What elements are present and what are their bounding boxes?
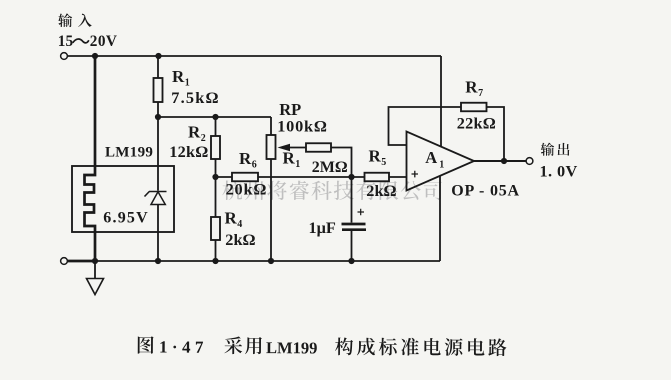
watermark 杭州将睿科技有限公司	[222, 181, 441, 201]
junction: ground zener	[155, 258, 161, 264]
svg-text:R: R	[369, 147, 382, 166]
label LM199	[105, 144, 153, 160]
svg-text:R: R	[188, 123, 201, 142]
svg-text:2MΩ: 2MΩ	[312, 159, 348, 176]
svg-text:LM199: LM199	[266, 338, 317, 357]
label A1 op-amp	[425, 148, 444, 171]
svg-text:4: 4	[237, 219, 242, 230]
svg-text:22kΩ: 22kΩ	[457, 113, 496, 132]
svg-text:100kΩ: 100kΩ	[277, 116, 328, 135]
wire: capacitor leads	[351, 177, 353, 261]
capacitor C1 1uF plates	[342, 209, 367, 230]
label 输出 (output)	[541, 143, 570, 156]
resistor R6 body	[232, 173, 258, 182]
svg-text:1: 1	[295, 159, 300, 170]
value 20kΩ	[226, 180, 268, 199]
junction: R2 bottom node	[212, 174, 218, 180]
label R7	[465, 78, 483, 100]
wire: bottom ground rail	[68, 260, 441, 262]
op-amp + input mark	[412, 171, 419, 178]
input terminal (+)	[61, 53, 68, 60]
wire: RP bottom lead to ground rail	[270, 117, 272, 261]
svg-text:1·47: 1·47	[159, 338, 208, 357]
wire: thick heater branch with LM199 heater meander	[85, 56, 96, 261]
value 2kΩ (R5)	[366, 181, 396, 200]
junction: ground R4	[212, 258, 218, 264]
value 100kΩ	[277, 116, 328, 135]
value 1uF	[309, 218, 336, 237]
value 12kΩ	[169, 142, 208, 161]
value 15~20V	[58, 33, 118, 50]
svg-text:12kΩ: 12kΩ	[169, 142, 208, 161]
svg-text:6: 6	[252, 160, 257, 171]
label R3	[225, 209, 243, 231]
output terminal	[526, 158, 533, 165]
resistor R5 body	[365, 173, 390, 182]
wire: op-amp V+ vertical drop	[440, 56, 442, 147]
value 2kΩ (R3)	[225, 230, 255, 249]
value 22kΩ	[457, 113, 496, 132]
svg-text:2kΩ: 2kΩ	[225, 230, 255, 249]
zener diode 6.95V	[145, 192, 167, 205]
wire: op-amp V- riser from ground rail	[439, 177, 441, 262]
svg-text:R: R	[283, 149, 296, 168]
resistor R7 body	[461, 103, 487, 112]
svg-text:OP - 05A: OP - 05A	[451, 182, 520, 199]
resistor R2 body	[211, 136, 220, 159]
potentiometer RP body	[267, 135, 276, 159]
value 6.95V	[103, 210, 149, 227]
svg-text:A: A	[425, 148, 437, 167]
svg-text:1: 1	[439, 160, 444, 171]
label OP-05A	[451, 182, 520, 199]
op-amp A1 triangle	[407, 132, 475, 191]
svg-text:20kΩ: 20kΩ	[226, 180, 268, 199]
svg-text:1μF: 1μF	[309, 218, 336, 237]
wire: R2/R4 branch vertical x=215.5	[215, 117, 217, 261]
value 1.0V	[540, 162, 578, 181]
resistor R3 (2k vertical) body	[211, 217, 220, 240]
svg-text:6.95V: 6.95V	[103, 210, 149, 227]
wire: node row y=117 (R1 bottom to RP top)	[158, 116, 271, 118]
junction: R2 top	[212, 114, 218, 120]
resistor R4 (2M) body	[306, 143, 331, 152]
svg-text:1. 0V: 1. 0V	[540, 162, 578, 181]
svg-text:R: R	[239, 149, 252, 168]
svg-text:R: R	[465, 78, 478, 97]
LM199 package box	[72, 166, 174, 232]
wire: node row y=177 (divider to op-amp +input)	[216, 176, 407, 178]
svg-text:R: R	[225, 209, 238, 228]
junction: ground RP	[268, 258, 274, 264]
svg-text:7.5kΩ: 7.5kΩ	[171, 88, 219, 107]
ground symbol	[87, 261, 104, 295]
potentiometer RP wiper arrow	[278, 144, 291, 151]
caption 图1-47	[138, 336, 507, 359]
label 输入 (input)	[58, 13, 92, 27]
svg-text:R: R	[172, 67, 185, 86]
junction: ground heater	[92, 258, 98, 264]
svg-text:15: 15	[58, 33, 74, 50]
junction: input/R1	[155, 53, 161, 59]
label RP	[279, 100, 301, 119]
wire: RP wiper to R4 2M ohm and down to node	[289, 148, 352, 178]
value 2MΩ	[312, 159, 348, 176]
svg-text:LM199: LM199	[105, 144, 153, 160]
label R5	[369, 147, 387, 169]
svg-text:2kΩ: 2kΩ	[366, 181, 396, 200]
wire: R1/zener branch vertical x=158	[157, 56, 159, 261]
label R4 (wiper series)	[283, 149, 301, 171]
junction: output node	[501, 158, 507, 164]
label R2	[188, 123, 206, 145]
value 7.5kΩ	[171, 88, 219, 107]
resistor R1 body	[154, 78, 163, 102]
svg-text:7: 7	[478, 88, 483, 99]
input terminal (-)	[61, 258, 68, 265]
svg-text:20V: 20V	[90, 33, 118, 50]
svg-text:1: 1	[185, 77, 190, 88]
junction: ground cap	[348, 258, 354, 264]
junction: input/heater	[92, 53, 98, 59]
wire: feedback loop (inverting input to R7 to output)	[389, 107, 505, 161]
wire: op-amp output to output terminal	[474, 160, 526, 162]
label R6	[239, 149, 257, 171]
svg-text:5: 5	[381, 157, 386, 168]
label R1	[172, 67, 190, 89]
wire: top rail from input terminal to op-amp V+ drop	[68, 55, 442, 57]
junction: 2M/cap node	[348, 174, 354, 180]
junction: R1 bottom node	[155, 114, 161, 120]
